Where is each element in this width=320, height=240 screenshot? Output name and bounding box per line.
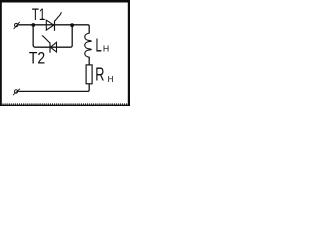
border frame left	[0, 0, 2, 106]
terminal top-left	[14, 22, 20, 29]
wire: top horizontal from terminal, corner down to coil	[18, 25, 89, 34]
wire: bottom branch horizontal with corners	[33, 25, 72, 47]
svg-text:T1: T1	[32, 5, 45, 24]
thyristor T2	[42, 35, 57, 52]
svg-text:H: H	[103, 44, 109, 54]
border frame bottom (comb edge)	[0, 104, 130, 106]
node left junction	[31, 23, 35, 27]
background	[0, 0, 130, 106]
resistor RH	[86, 65, 92, 84]
wire: resistor down, corner, bottom horizontal back to terminal	[18, 84, 89, 92]
border frame top	[0, 0, 130, 3]
inductor LH coil	[85, 33, 92, 57]
border frame right	[128, 0, 130, 106]
svg-text:H: H	[108, 74, 114, 84]
label RH	[95, 64, 113, 85]
node right junction	[70, 23, 74, 27]
thyristor T1	[46, 12, 61, 31]
wire: left vertical branch	[32, 25, 34, 46]
svg-text:T2: T2	[29, 49, 45, 68]
label LH	[96, 35, 110, 55]
terminal bottom-left	[13, 89, 20, 96]
wire: coil to resistor	[88, 57, 90, 65]
svg-text:L: L	[96, 35, 102, 55]
svg-text:R: R	[95, 64, 104, 85]
